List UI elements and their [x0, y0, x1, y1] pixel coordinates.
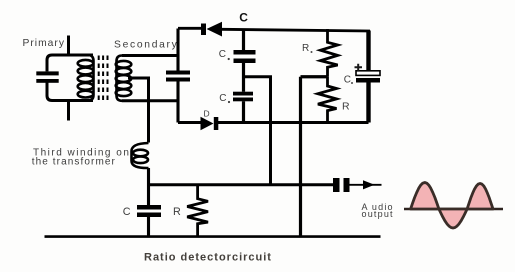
wire primary top stub	[67, 36, 70, 57]
svg-text:the transformer: the transformer	[32, 157, 116, 168]
diode D2 bottom	[201, 117, 214, 131]
wire middle capacitor chain	[242, 29, 245, 123]
wire third winding down to audio node	[147, 168, 150, 205]
svg-text:C: C	[344, 75, 351, 86]
svg-text:Primary: Primary	[23, 38, 65, 49]
label plus sign	[355, 64, 363, 71]
wire bottom rail	[178, 121, 369, 124]
svg-text:R: R	[302, 43, 309, 54]
resistor R3 load	[187, 185, 208, 237]
wire audio output line	[149, 183, 334, 186]
svg-text:Secondary: Secondary	[114, 40, 179, 51]
svg-text:output: output	[362, 209, 394, 219]
capacitor primary tank	[36, 71, 58, 75]
capacitor C3 lower	[233, 92, 253, 96]
wire primary bottom stub	[67, 101, 70, 121]
wire primary tank loop	[47, 55, 93, 101]
svg-text:R: R	[342, 101, 350, 113]
wire C5 to ground	[147, 217, 150, 237]
transformer core dashed lines	[99, 56, 108, 103]
svg-text:Ratio detectorcircuit: Ratio detectorcircuit	[144, 252, 272, 264]
svg-text:C: C	[219, 49, 226, 60]
wire top rail	[178, 27, 201, 30]
svg-text:R: R	[173, 206, 181, 218]
capacitor C4 electrolytic	[356, 71, 380, 76]
diode D1 top	[201, 24, 206, 36]
capacitor C6 coupling	[333, 178, 340, 192]
wire secondary bottom to tank right branch	[122, 99, 178, 102]
sine wave audio signal	[411, 183, 493, 229]
sine wave axis	[404, 208, 503, 211]
wire secondary right branch vertical	[176, 29, 179, 123]
capacitor C2 secondary tank	[166, 71, 190, 75]
svg-text:C: C	[123, 206, 131, 218]
wire tap between R1 R2 down to ground	[301, 77, 328, 237]
svg-text:C: C	[219, 93, 226, 104]
wire secondary centre tap	[128, 78, 149, 143]
inductor L3 third winding	[132, 143, 149, 168]
resistor R2	[318, 77, 337, 123]
wire ground baseline	[45, 235, 381, 238]
inductor L1 primary winding	[78, 55, 94, 101]
wire secondary top to tank right branch	[122, 54, 178, 57]
wire audio arrow	[350, 184, 382, 186]
capacitor C1 upper	[234, 50, 256, 55]
capacitor C5 de-emphasis	[137, 205, 161, 210]
resistor R1	[321, 29, 338, 77]
wire electrolytic branch	[366, 31, 370, 123]
svg-text:D: D	[204, 109, 210, 119]
wire tap between C1 C3 to audio line	[244, 77, 271, 185]
inductor L2 secondary winding	[116, 56, 132, 101]
svg-text:C: C	[239, 11, 248, 25]
